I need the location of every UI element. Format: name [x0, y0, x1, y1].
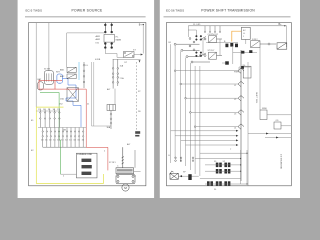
battery G1 round body: [38, 82, 44, 90]
arrow A1: [139, 60, 141, 62]
relay K2 with contacts: [124, 52, 135, 58]
wire to ground: [134, 170, 141, 172]
starter bus hatched: [122, 147, 124, 168]
fuse pair row 2: [196, 52, 202, 57]
solenoid row 3: [207, 181, 230, 185]
connector box mid: [243, 66, 251, 78]
header rule: [164, 16, 291, 18]
relay riser wires: [203, 39, 220, 56]
junction open circles: [174, 70, 196, 128]
highlight cyan wire: [78, 62, 80, 80]
top bus: [188, 25, 286, 27]
relay K5 with cross: [67, 88, 78, 102]
fuse risers to bus: [204, 26, 220, 33]
right page: [160, 0, 300, 198]
left stub circles: [174, 43, 210, 63]
label smudges right page: [169, 34, 280, 191]
arrow marks staircase: [236, 130, 238, 146]
highlight green wire: [40, 93, 61, 175]
wire starter feed: [134, 150, 136, 168]
diode block right: [277, 43, 287, 49]
wire bus vertical left A: [35, 23, 37, 107]
diagram frame: [167, 23, 292, 186]
fuse row 1 (5 fuses): [36, 109, 60, 128]
wire fuse bus 2: [43, 146, 86, 148]
svg-text:U-: U-: [243, 33, 245, 35]
fuse columns right F9 F10: [112, 59, 114, 88]
junction blobs mid: [225, 50, 252, 69]
wire connector to bus: [178, 175, 199, 177]
wire box drop: [245, 39, 247, 44]
label text cluster: [96, 35, 122, 44]
highlight red loop: [39, 80, 55, 89]
svg-text:ST RLY: ST RLY: [208, 50, 215, 52]
diagram frame: [29, 23, 146, 186]
vertical bus columns: [171, 44, 200, 176]
svg-text:1/2 SOLENOID: 1/2 SOLENOID: [280, 154, 282, 169]
wire fuse feed down: [114, 89, 116, 105]
fuse caps on vertical ends: [175, 157, 194, 161]
fuse F5: [83, 62, 85, 72]
junction dot: [180, 175, 182, 177]
svg-text:C/OPN RLY: C/OPN RLY: [208, 34, 219, 36]
relay box K1: [104, 34, 114, 42]
relay group row 1: [200, 36, 223, 43]
highlight red stub: [55, 79, 62, 81]
highlight red main run: [55, 89, 108, 170]
fuse F8: [110, 111, 112, 130]
svg-text:POWER SHIFT TRANSMISSION: POWER SHIFT TRANSMISSION: [201, 9, 255, 13]
svg-text:N RLY: N RLY: [252, 39, 258, 41]
svg-text:AM2: AM2: [96, 38, 101, 41]
legend bar 1: [82, 159, 92, 162]
svg-text:EC-56 TWDS: EC-56 TWDS: [166, 8, 184, 12]
fuse block box F7: [107, 105, 116, 111]
starter motor M1: [116, 168, 135, 191]
wire to fuse stack: [92, 125, 112, 127]
component box right mid: [260, 110, 267, 120]
staircase rows lower-left: [171, 131, 236, 145]
svg-text:30A: 30A: [107, 126, 111, 129]
center second bus: [247, 62, 249, 186]
svg-text:MAIN: MAIN: [116, 39, 122, 42]
wire gray bus pair: [91, 62, 93, 126]
highlight yellow region: [36, 107, 103, 183]
wire dashed right column: [136, 62, 138, 131]
highlight orange wire: [232, 31, 242, 41]
ignition switch S1 body: [44, 71, 53, 85]
header rule: [25, 16, 146, 18]
junction label smudges: [31, 59, 141, 178]
fuse row 2 (11 fuses): [42, 128, 84, 148]
relay K6 right: [251, 41, 277, 48]
label text relay labels: [60, 68, 65, 78]
wire legend feed: [61, 173, 77, 175]
fuse pair row 1: [196, 35, 202, 40]
solenoid row 1: [216, 163, 231, 168]
relay contact blobs row: [225, 43, 238, 47]
legend bar 3: [82, 172, 92, 175]
fuse F4: [111, 43, 113, 49]
connector X-box left: [170, 171, 179, 179]
wire right column: [259, 47, 261, 110]
wire bus drop left: [187, 26, 189, 37]
component box right mid 2: [274, 122, 281, 129]
svg-text:7.5A: 7.5A: [120, 77, 125, 80]
svg-text:KEY: KEY: [56, 72, 61, 74]
alternator label smudge: [135, 131, 140, 136]
label text fuse row 1: [38, 109, 60, 111]
svg-text:SHIFT SOL: SHIFT SOL: [255, 92, 257, 104]
svg-text:FL 0.85: FL 0.85: [193, 24, 201, 26]
wire top feed: [67, 33, 105, 67]
fuse F6: [83, 72, 85, 88]
relay K4: [67, 74, 76, 79]
svg-text:15A: 15A: [60, 98, 64, 101]
ground arrow: [0, 0, 1, 1]
left page: [18, 0, 155, 198]
legend bar 2: [82, 165, 92, 168]
svg-text:PWR: PWR: [234, 72, 239, 74]
svg-text:ST RLY: ST RLY: [109, 162, 116, 164]
highlight blue path: [63, 79, 82, 127]
wire to frame 2: [281, 125, 291, 127]
wire fuse bus 1: [38, 127, 86, 129]
wire stepped to relay K2: [105, 48, 123, 57]
wire under relays: [206, 42, 238, 44]
svg-text:FUSIBLE LINK: FUSIBLE LINK: [78, 154, 93, 156]
arrow marks bottom right: [266, 133, 269, 135]
wire to frame: [267, 114, 291, 116]
svg-text:POWER SOURCE: POWER SOURCE: [71, 9, 103, 13]
fuse F3: [104, 43, 106, 49]
wire relay to right bus: [134, 54, 141, 56]
solenoid blob left: [188, 174, 191, 180]
wire bus into row1: [188, 30, 196, 35]
relay K3: [67, 67, 76, 72]
transistor symbols on center bus: [238, 50, 244, 181]
fuse F2: [111, 23, 113, 33]
solenoid connect wires: [195, 150, 247, 184]
svg-text:IG SW: IG SW: [44, 69, 50, 71]
open circles column: [189, 38, 195, 51]
legend box: [76, 153, 97, 178]
key switch S2 body: [57, 74, 63, 83]
connector box highlighted: [241, 27, 250, 39]
junction dots bottom: [240, 153, 248, 185]
wire right feed down: [142, 25, 144, 54]
relay group row 2: [200, 52, 223, 59]
wires bottom right to frame: [248, 134, 291, 138]
wire bus vertical left B: [48, 23, 50, 71]
wire ST row: [113, 58, 141, 60]
wire mid cluster under box: [222, 47, 257, 71]
svg-text:0.85B: 0.85B: [95, 59, 101, 61]
svg-text:AM1: AM1: [96, 35, 101, 38]
svg-text:EC-5 TWDS: EC-5 TWDS: [26, 8, 42, 12]
solenoid row 2: [216, 169, 231, 174]
fuse F1: [104, 23, 106, 33]
junction rows to center: [175, 71, 238, 127]
svg-text:NSW: NSW: [262, 108, 267, 110]
label text in box: [243, 30, 246, 38]
wire bus drop right: [286, 26, 288, 47]
label text fuse row 2: [41, 139, 85, 141]
